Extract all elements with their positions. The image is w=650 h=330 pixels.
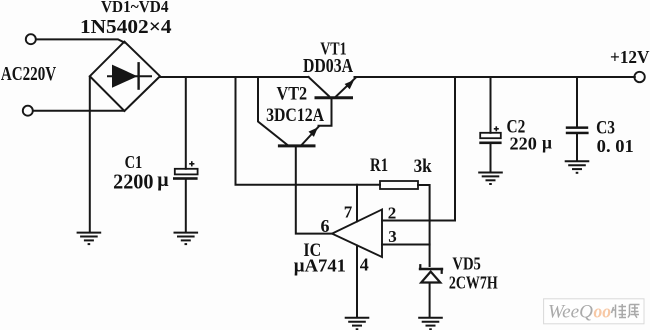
svg-text:0. 01: 0. 01	[597, 136, 634, 156]
svg-text:μ: μ	[157, 169, 169, 191]
svg-text:2: 2	[388, 203, 397, 222]
svg-text:R1: R1	[370, 155, 388, 176]
svg-text:+12V: +12V	[610, 47, 650, 67]
svg-text:6: 6	[321, 216, 330, 236]
svg-text:7: 7	[344, 203, 353, 222]
svg-text:3DC12A: 3DC12A	[266, 105, 324, 126]
svg-text:3: 3	[388, 227, 397, 246]
svg-text:μ: μ	[294, 256, 305, 277]
svg-text:4: 4	[360, 254, 369, 274]
svg-text:2CW7H: 2CW7H	[449, 273, 498, 293]
svg-text:3k: 3k	[414, 156, 432, 177]
svg-text:μ: μ	[542, 132, 552, 152]
svg-text:1N5402×4: 1N5402×4	[80, 16, 172, 38]
svg-text:VD1~VD4: VD1~VD4	[101, 0, 169, 16]
svg-text:A741: A741	[305, 256, 346, 276]
svg-text:220: 220	[510, 134, 538, 154]
svg-text:DD03A: DD03A	[303, 56, 353, 77]
svg-text:VT2: VT2	[277, 85, 308, 105]
svg-text:oo: oo	[594, 303, 612, 323]
svg-text:WeeQ: WeeQ	[548, 303, 594, 323]
svg-text:VD5: VD5	[452, 254, 481, 274]
svg-text:AC220V: AC220V	[1, 64, 56, 85]
svg-text:2200: 2200	[113, 170, 153, 194]
